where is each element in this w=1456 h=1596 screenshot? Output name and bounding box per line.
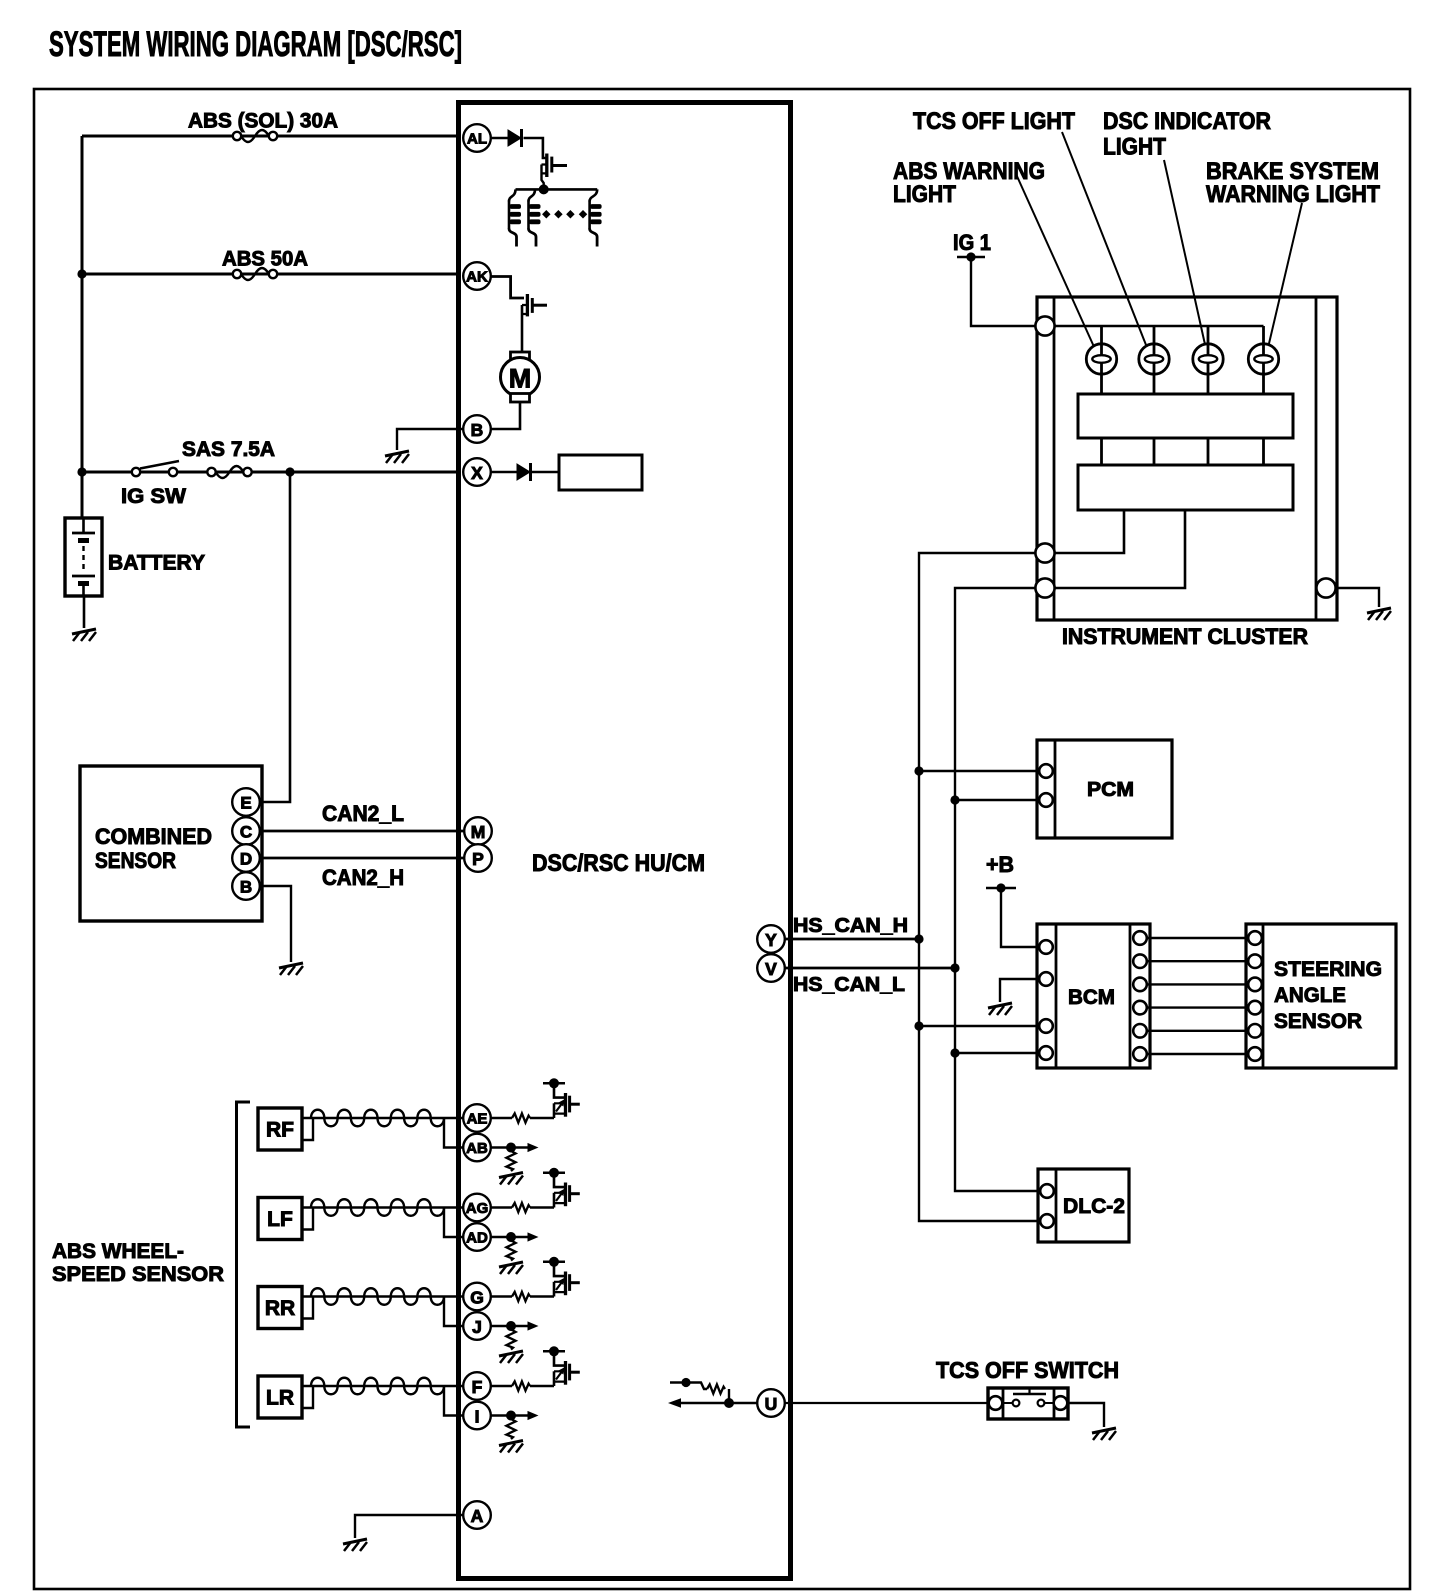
terminal BCM left 1 [1039,940,1053,954]
svg-text:ABS (SOL) 30A: ABS (SOL) 30A [188,110,338,133]
terminal J [463,1312,491,1340]
cluster driver box 2 [1078,465,1293,510]
wire BCM to steering angle sensor 6 [1147,1053,1249,1055]
terminal steering angle sensor 1 [1248,931,1262,945]
terminal steering angle sensor 2 [1248,954,1262,968]
BCM box [1037,924,1150,1068]
switch IG SW [132,461,179,476]
ABS wheel-speed sensor RF [258,1108,302,1150]
fuse SAS 7.5A [207,466,251,478]
terminal DLC-2 bottom [1040,1214,1054,1228]
svg-text:B: B [240,878,252,897]
svg-text:AD: AD [466,1230,488,1247]
wire sensor LR twisted pair [302,1378,463,1416]
wire motor to terminal B [491,402,520,429]
wire cluster lamp bus [1055,325,1264,328]
svg-text:LIGHT: LIGHT [1103,134,1166,161]
wire terminal B to ground [397,429,463,450]
svg-text:BCM: BCM [1068,985,1115,1009]
svg-text:CAN2_L: CAN2_L [322,801,404,826]
terminal steering angle sensor 5 [1248,1024,1262,1038]
svg-text:RF: RF [266,1119,294,1142]
STEERING ANGLE SENSOR box [1246,924,1396,1068]
bracket wheel sensors [237,1102,251,1427]
svg-text:AL: AL [467,131,487,148]
callout line ABS warning [1016,174,1095,349]
svg-text:V: V [765,959,777,979]
fuse ABS 50A [233,268,277,280]
wire ABS 50A bus [82,273,458,276]
ground battery [72,629,96,641]
callout line brake warning [1267,203,1302,352]
transistor sensor supply G [543,1257,580,1297]
terminal G [463,1283,491,1311]
resistor input AE [491,1117,512,1119]
terminal F [463,1372,491,1400]
terminal AG [463,1194,491,1222]
wires lamp drops [1102,326,1264,394]
svg-text:AG: AG [466,1200,489,1217]
terminal PCM 2 [1039,793,1053,807]
svg-text:STEERING: STEERING [1274,957,1382,981]
terminal M [464,817,492,845]
wire PCM H [919,770,1040,773]
terminal BCM right 2 [1133,954,1147,968]
node junction BCM L [950,1048,959,1057]
svg-text:A: A [471,1506,484,1526]
node junction combined-sensor branch [285,467,294,476]
wire CAN2_H [259,857,465,860]
cluster driver box 1 [1078,394,1293,438]
pull-up circuit terminal U [668,1378,757,1408]
terminal BCM right 4 [1133,1001,1147,1015]
wire PCM L [955,799,1040,802]
svg-text:AE: AE [467,1111,488,1128]
svg-text:ABS WHEEL-: ABS WHEEL- [52,1239,184,1263]
terminal BCM left 2 [1039,972,1053,986]
wire BCM to ground [1000,979,1039,1002]
terminal steering angle sensor 3 [1248,978,1262,992]
svg-text:TCS OFF LIGHT: TCS OFF LIGHT [913,108,1075,135]
PCM box [1037,740,1172,838]
resistor pulldown + signal arrow AB [491,1143,539,1185]
node HS_CAN_H junction [914,934,923,943]
svg-text:ANGLE: ANGLE [1274,983,1346,1007]
fuse ABS (SOL) 30A [233,130,277,142]
terminal BCM right 6 [1133,1047,1147,1061]
terminal DLC-2 top [1040,1184,1054,1198]
wire sensor RF twisted pair [302,1110,463,1148]
ground terminal A [343,1539,367,1551]
terminal E [232,788,260,816]
resistor input G [491,1295,512,1297]
svg-text:X: X [471,463,483,483]
wire BCM to steering angle sensor 3 [1147,983,1249,985]
resistor pulldown + signal arrow J [491,1321,539,1363]
callout line DSC indicator [1164,160,1206,349]
svg-text:SENSOR: SENSOR [1274,1009,1362,1033]
svg-text:HS_CAN_L: HS_CAN_L [793,974,905,996]
wire cluster to ground [1336,588,1379,607]
wire BCM H [919,1025,1040,1028]
svg-text:HS_CAN_H: HS_CAN_H [793,915,908,937]
svg-text:+B: +B [986,852,1014,877]
terminal Y [757,925,785,953]
svg-text:LF: LF [267,1208,293,1231]
diode solenoid supply [508,130,521,146]
svg-text:IG SW: IG SW [121,485,186,508]
resistor pulldown + signal arrow AD [491,1232,539,1274]
svg-text:SYSTEM WIRING DIAGRAM [DSC/RSC: SYSTEM WIRING DIAGRAM [DSC/RSC] [49,25,462,64]
wire ignition bus [82,471,458,474]
switch TCS OFF SWITCH [988,1388,1068,1419]
transistor solenoid driver [542,154,568,190]
terminal BCM left 4 [1039,1046,1053,1060]
terminal A [463,1501,491,1529]
svg-text:Y: Y [765,930,777,950]
terminal B [463,415,491,443]
svg-text:I: I [475,1407,480,1427]
svg-text:ABS 50A: ABS 50A [222,248,308,271]
svg-text:IG 1: IG 1 [953,230,991,255]
svg-text:D: D [240,850,252,869]
wire cluster CAN L out [1055,510,1185,588]
node solenoid bus junction [539,184,549,194]
solenoid coil 1 [509,189,521,246]
wire BCM to steering angle sensor 5 [1147,1030,1249,1032]
lamp DSC indicator light [1193,344,1223,374]
terminal steering angle sensor 4 [1248,1001,1262,1015]
terminal AD [463,1223,491,1251]
solenoid coil n [590,189,602,246]
resistor input F [491,1385,512,1387]
svg-text:DSC/RSC HU/CM: DSC/RSC HU/CM [532,850,705,877]
transistor pump motor driver [522,294,547,352]
wire +B to BCM [1001,888,1040,947]
svg-text:LIGHT: LIGHT [893,181,956,208]
wire CAN2_L [259,830,465,833]
terminal U [757,1389,785,1417]
svg-text:U: U [765,1394,778,1414]
node junction battery/SAS [77,467,86,476]
svg-text:CAN2_H: CAN2_H [322,865,404,890]
wire U to TCS OFF SWITCH [785,1402,989,1404]
wire ABS (SOL) 30A bus [82,135,458,138]
svg-text:PCM: PCM [1087,779,1134,801]
transistor sensor supply AE [543,1078,580,1118]
svg-text:M: M [509,364,532,394]
ellipsis dots (more coils) [542,210,587,218]
battery BAT [65,518,102,596]
wire BCM to steering angle sensor 4 [1147,1006,1249,1008]
ABS wheel-speed sensor RR [258,1287,302,1329]
resistor pulldown + signal arrow I [491,1411,539,1453]
terminal AK [463,262,491,290]
svg-text:C: C [240,823,252,842]
terminal AB [463,1134,491,1162]
node junction battery/ABS50A [77,269,86,278]
ground instrument cluster [1367,608,1391,620]
svg-text:SPEED SENSOR: SPEED SENSOR [52,1262,224,1286]
wire cluster CAN H out [1055,510,1124,553]
wire AK to transistor [491,277,524,299]
wire diode to relay box [532,471,559,474]
diode valve relay [517,464,530,480]
callout line TCS off [1062,132,1148,350]
terminal P [464,844,492,872]
wire HS_CAN_H [785,938,919,941]
solenoid coil 2 [529,189,541,246]
terminal V [757,954,785,982]
terminal steering angle sensor 6 [1248,1047,1262,1061]
svg-text:M: M [471,822,486,842]
lamp ABS warning light [1086,344,1116,374]
svg-text:E: E [240,794,251,813]
svg-text:DSC INDICATOR: DSC INDICATOR [1103,108,1271,135]
wire IG 1 to cluster [971,257,1036,326]
wire AL to diode [491,137,508,140]
wire sensor RR twisted pair [302,1288,463,1326]
terminal C [232,817,260,845]
svg-text:SAS 7.5A: SAS 7.5A [182,438,275,461]
COMBINED SENSOR unit box [80,766,262,921]
ground terminal B [385,451,409,463]
wire solenoid bus [516,188,598,191]
svg-text:G: G [470,1288,484,1308]
node HS_CAN_L junction [950,963,959,972]
node junction PCM H [914,766,923,775]
terminal cluster ground [1316,578,1335,597]
terminal I [463,1402,491,1430]
transistor sensor supply F [543,1346,580,1386]
wire BCM to steering angle sensor 2 [1147,960,1249,962]
lamp brake system warning light [1248,344,1278,374]
node junction BCM H [914,1021,923,1030]
wire TCS switch to ground [1068,1403,1104,1427]
svg-text:F: F [472,1377,483,1397]
svg-text:COMBINED: COMBINED [95,824,212,849]
wire battery feed vertical [81,136,84,518]
svg-text:INSTRUMENT CLUSTER: INSTRUMENT CLUSTER [1062,624,1308,649]
terminal cluster CAN L [1035,578,1054,597]
wire X to diode [491,471,517,474]
svg-text:DLC-2: DLC-2 [1063,1194,1125,1218]
wire terminal B to ground [259,886,291,962]
terminal BCM right 3 [1133,978,1147,992]
terminal AE [463,1104,491,1132]
transistor sensor supply AG [543,1168,580,1208]
wire battery to ground [83,596,86,628]
wire CAN bus L vertical [955,588,1040,1191]
terminal D [232,844,260,872]
svg-text:J: J [472,1317,482,1337]
svg-text:LR: LR [266,1387,294,1410]
svg-text:P: P [472,849,484,869]
wire terminal E to ignition bus [259,472,290,802]
ABS wheel-speed sensor LF [258,1198,302,1240]
svg-text:RR: RR [265,1297,295,1320]
terminal AL [463,124,491,152]
terminal PCM 1 [1039,764,1053,778]
terminal BCM right 1 [1133,931,1147,945]
terminal cluster CAN H [1035,543,1054,562]
ground BCM [988,1003,1012,1015]
terminal cluster IG [1035,316,1054,335]
svg-text:WARNING LIGHT: WARNING LIGHT [1206,181,1380,208]
ABS wheel-speed sensor LR [258,1376,302,1418]
svg-text:B: B [471,420,484,440]
DLC-2 box [1038,1169,1129,1242]
svg-text:BATTERY: BATTERY [108,552,205,575]
terminal B (combined sensor) [232,872,260,900]
terminal BCM left 3 [1039,1019,1053,1033]
svg-text:TCS OFF SWITCH: TCS OFF SWITCH [936,1357,1119,1383]
wire BCM L [955,1052,1040,1055]
wire BCM to steering angle sensor 1 [1147,937,1249,939]
node junction PCM L [950,795,959,804]
lamp TCS off light [1139,344,1169,374]
wire CAN bus H vertical [919,553,1040,1221]
terminal X [463,458,491,486]
wire diode to transistor [524,138,547,158]
motor M (ABS pump) [501,352,540,402]
relay box (unlabeled) [559,455,642,490]
wire HS_CAN_L [785,967,955,970]
wire terminal A to ground [355,1515,463,1538]
DSC/RSC HU/CM unit box [459,103,791,1579]
ground combined sensor [279,963,303,975]
resistor input AG [491,1206,512,1208]
INSTRUMENT CLUSTER box [1037,297,1337,620]
svg-text:AK: AK [466,269,488,286]
wires between driver boxes [1102,438,1264,465]
terminal BCM right 5 [1133,1024,1147,1038]
svg-text:SENSOR: SENSOR [95,848,176,873]
svg-text:AB: AB [466,1140,488,1157]
wire sensor LF twisted pair [302,1199,463,1237]
ground TCS switch [1092,1428,1116,1440]
